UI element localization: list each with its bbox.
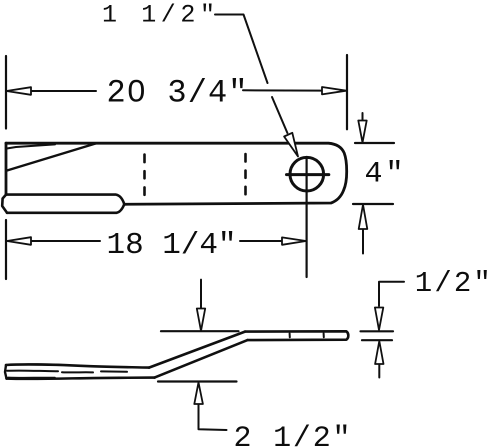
down arrow: [375, 308, 383, 331]
left bar bottom edge: [7, 378, 155, 379]
bend line 1 (dashed): [143, 155, 146, 195]
svg-text:20 3/4": 20 3/4": [107, 75, 248, 112]
left bar cap: [5, 365, 7, 379]
plan bevel shoulder line near top-left: [6, 144, 55, 148]
svg-text:1 1/2": 1 1/2": [102, 1, 215, 30]
tick marks on right bar: [290, 333, 324, 337]
right extension line: [346, 55, 348, 129]
lower lip top edge: [6, 195, 124, 205]
right arrowhead: [322, 87, 346, 94]
arrows: [7, 237, 31, 245]
hook to text: [379, 282, 404, 306]
plain-zero patch (hide mono dotted-zero): [133, 87, 140, 94]
right bar: [245, 331, 348, 340]
hole crosshair horizontal: [287, 173, 329, 176]
blade top edge + rounded right end + bottom edge: [6, 143, 347, 204]
bend line 2 (dashed): [244, 154, 247, 194]
svg-text:18 1/4": 18 1/4": [107, 228, 237, 263]
blade left edge: [5, 143, 8, 194]
left extension line (below blade): [5, 220, 7, 279]
dim line right segment: [243, 89, 322, 91]
top extension line: [355, 142, 394, 144]
top arrow (down): [362, 113, 364, 121]
svg-text:4": 4": [365, 158, 404, 192]
up arrow: [378, 365, 380, 378]
svg-text:1/2": 1/2": [415, 267, 488, 300]
bevel lines inside: [7, 371, 127, 373]
dim line segments: [31, 240, 100, 242]
lower extension line: [158, 380, 237, 382]
extension lines: [361, 331, 394, 340]
hole: [290, 157, 324, 191]
lower lip left cap: [2, 195, 7, 213]
svg-text:2 1/2": 2 1/2": [234, 422, 351, 448]
left extension line: [5, 56, 7, 129]
up arrow + elbow: [199, 404, 227, 430]
hole centerline vertical (down to 18 1/4 dim): [306, 157, 308, 277]
bend diagonal top: [149, 332, 245, 368]
bend diagonal bottom: [155, 340, 248, 378]
left bar top edge: [6, 364, 149, 367]
dim line left segment: [31, 90, 96, 92]
left arrowhead: [7, 87, 32, 95]
upper extension line: [161, 330, 239, 332]
bottom extension line: [353, 203, 393, 205]
down arrow: [200, 280, 202, 309]
bottom arrow (up): [362, 230, 364, 254]
plan sharpening diagonal: [7, 143, 96, 170]
lower lip bottom edge: [7, 204, 124, 213]
